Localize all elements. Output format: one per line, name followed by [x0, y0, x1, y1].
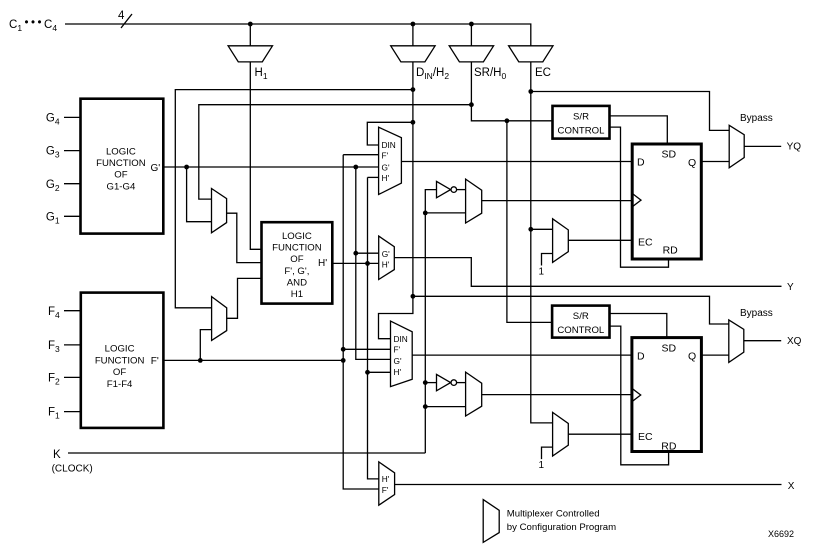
wire lower small mux output to H box [227, 278, 262, 318]
wire lower big mux output to FF D [412, 354, 632, 356]
wire SR/H0 net down and right to upper S/R control [471, 62, 552, 121]
svg-text:G': G' [382, 163, 390, 173]
svg-text:Bypass: Bypass [740, 113, 773, 124]
svg-text:Multiplexer Controlled: Multiplexer Controlled [507, 509, 600, 520]
svg-text:FUNCTION: FUNCTION [272, 243, 322, 254]
mux EC (config mux) [509, 46, 553, 62]
svg-text:F': F' [394, 345, 401, 355]
svg-text:OF: OF [114, 170, 127, 181]
wire top bus C1-C4 [65, 24, 531, 46]
node junction clock at y382.6 [423, 380, 428, 385]
svg-text:F': F' [382, 151, 389, 161]
svg-text:H': H' [382, 474, 390, 484]
node junction SR/H0 at y104.7 [469, 102, 474, 107]
node junction G' at x355.8 [353, 165, 358, 170]
svg-text:OF: OF [290, 254, 303, 265]
wire H' output from H box [332, 262, 378, 264]
mux upper clock polarity (config mux) [466, 179, 482, 223]
wire stub bus to DIN/H2 mux [412, 24, 414, 46]
wire G' tap to G'/H' mux [356, 252, 379, 254]
svg-text:RD: RD [663, 245, 679, 257]
svg-text:Y: Y [787, 282, 794, 293]
wire EC branch to upper EC select mux [531, 228, 553, 230]
bus width slash [121, 14, 132, 28]
logic function box F1-F4 [81, 293, 164, 428]
node junction on bus for H1 [248, 22, 253, 27]
svg-text:F', G',: F', G', [284, 266, 309, 277]
svg-text:X6692: X6692 [768, 529, 794, 539]
wire upper S/R to RD [610, 127, 669, 267]
node junction on bus for SR/H0 [469, 22, 474, 27]
wire G' dropper to lower big mux G' input [356, 167, 391, 359]
wire DIN/H2 branch left to lower small mux input [175, 90, 413, 308]
node junction F' at y349.3 [341, 347, 346, 352]
mux G'/H' (config mux) [379, 236, 395, 279]
wire constant 1 into upper EC mux [542, 254, 553, 266]
node junction DIN/H2 at y89.6 [411, 87, 416, 92]
mux small lower (F'/DIN select, config mux) [212, 297, 227, 341]
mux small upper (G'/SR select, config mux) [212, 189, 227, 233]
mux lower big DIN/F'/G'/H' (config mux) [391, 321, 413, 387]
wire constant 1 into lower EC mux [542, 447, 553, 459]
svg-text:Q: Q [688, 157, 696, 169]
wire EC branch to upper bypass mux [531, 92, 729, 131]
node junction clock at y212.9 [423, 211, 428, 216]
node junction F' riser [341, 358, 346, 363]
mux DIN/H2 (config mux) [391, 46, 435, 62]
svg-text:D: D [637, 157, 645, 169]
svg-text:LOGIC: LOGIC [105, 344, 135, 355]
wire DIN/H2 net vertical and into lower big mux DIN [379, 62, 413, 339]
wire clock vertical from K [425, 190, 436, 453]
logic function box F' G' H1 [262, 222, 333, 303]
node junction EC at y229.3 [528, 227, 533, 232]
svg-text:H': H' [394, 367, 402, 377]
wire H' top tap to upper big mux H' input [368, 176, 379, 178]
wire clock direct to upper clock mux [425, 212, 465, 214]
inverter upper clock [437, 181, 451, 197]
mux upper EC select (config mux) [553, 219, 569, 263]
svg-text:DIN: DIN [382, 140, 396, 150]
wire G' tap to upper small mux input [187, 167, 212, 222]
wire H1 net: mux H1 down to H box input [250, 62, 261, 249]
svg-text:K: K [53, 449, 61, 461]
mux upper bypass (config mux) [729, 125, 744, 168]
mux H'/F' (config mux) [379, 462, 395, 505]
svg-text:G1-G4: G1-G4 [107, 181, 136, 192]
wire upper S/R to SD [610, 116, 668, 144]
wire F' tap to lower big mux F' input [343, 348, 390, 350]
wire lower EC mux output to FF EC [568, 433, 632, 435]
S/R control box lower [552, 306, 609, 338]
wire SR/H0 branch left to upper small mux input [199, 105, 472, 199]
node junction H' at y372.3 [365, 370, 370, 375]
wire stub bus to SR/H0 mux [470, 24, 472, 46]
wire stub bus to H1 mux [249, 24, 251, 46]
wire X output from H'/F' mux [395, 484, 782, 486]
svg-text:EC: EC [535, 67, 551, 79]
svg-text:OF: OF [113, 367, 126, 378]
legend mux symbol (config mux) [483, 500, 499, 543]
clock triangle lower FF [632, 388, 641, 401]
svg-text:(CLOCK): (CLOCK) [52, 464, 93, 475]
node junction EC at y91.5 [528, 89, 533, 94]
svg-text:XQ: XQ [787, 336, 802, 347]
svg-text:G': G' [394, 356, 402, 366]
mux lower bypass (config mux) [729, 320, 744, 363]
mux SR/H0 (config mux) [449, 46, 493, 62]
node junction G' at x186.6 [184, 165, 189, 170]
svg-text:SD: SD [662, 149, 677, 161]
wire F' net from F box to riser [163, 359, 343, 361]
wire upper EC mux output to FF EC [568, 239, 632, 241]
node junction G' dropper at y253.2 [353, 251, 358, 256]
wire clock to lower inverter [425, 382, 436, 384]
svg-text:H': H' [382, 173, 390, 183]
svg-text:Bypass: Bypass [740, 308, 773, 319]
svg-text:LOGIC: LOGIC [106, 146, 136, 157]
wire K clock line [68, 452, 425, 454]
wire lower clock mux output to FF clock [482, 394, 632, 396]
mux lower clock polarity (config mux) [466, 372, 482, 416]
svg-text:X: X [788, 481, 795, 492]
wire upper big mux output to FF D [401, 161, 632, 163]
node junction clock at y406.6 [423, 404, 428, 409]
svg-text:EC: EC [638, 431, 653, 443]
node junction DIN/H2 at y296.3 [411, 294, 416, 299]
svg-text:4: 4 [118, 10, 125, 22]
svg-text:FUNCTION: FUNCTION [96, 158, 146, 169]
node junction F' at x200.3 [198, 358, 203, 363]
wire H' tap to lower big mux H' input [368, 371, 391, 373]
svg-text:G': G' [382, 249, 390, 259]
S/R control box upper [553, 106, 610, 139]
node junction H' vertical [365, 261, 370, 266]
node junction on bus for DIN/H2 [411, 22, 416, 27]
wire DIN branch to upper big mux DIN input [367, 122, 413, 145]
node junction SR/H0 at x506.9 [505, 118, 510, 123]
svg-text:CONTROL: CONTROL [557, 325, 605, 336]
wire DIN/H2 branch to lower bypass mux [413, 296, 729, 324]
wire upper small mux output to H box [227, 213, 262, 262]
svg-text:H': H' [318, 258, 327, 269]
svg-text:SD: SD [662, 342, 677, 354]
wire F' top tap to upper big mux F' input [343, 154, 378, 156]
svg-text:AND: AND [287, 277, 307, 288]
wire lower Q to bypass mux [701, 354, 728, 356]
clock triangle upper FF [632, 193, 641, 206]
wire XQ output [744, 340, 781, 342]
wire lower S/R to SD [610, 314, 667, 338]
svg-text:by Configuration Program: by Configuration Program [507, 522, 616, 533]
svg-text:H': H' [382, 260, 390, 270]
svg-text:LOGIC: LOGIC [282, 231, 312, 242]
wire upper Q to bypass mux [701, 161, 729, 163]
svg-text:EC: EC [638, 236, 653, 248]
wire Y output from G'/H' mux [394, 258, 781, 287]
svg-text:CONTROL: CONTROL [558, 126, 606, 137]
flip-flop upper [632, 144, 701, 259]
node junction DIN/H2 at y122.3 [411, 120, 416, 125]
svg-text:RD: RD [661, 440, 677, 452]
svg-text:S/R: S/R [573, 112, 589, 123]
wire H' vertical spine [368, 177, 379, 479]
svg-text:F': F' [382, 485, 389, 495]
wire F' to lower small mux input from F' line [200, 330, 211, 361]
wire upper clock mux output to FF clock [482, 200, 633, 202]
svg-text:D: D [637, 350, 645, 362]
svg-text:F': F' [151, 356, 159, 367]
mux H1 (config mux) [228, 46, 272, 62]
svg-text:H1: H1 [291, 289, 303, 300]
svg-text:FUNCTION: FUNCTION [95, 355, 145, 366]
inverter lower clock [437, 374, 451, 390]
wire YQ output [744, 145, 781, 147]
svg-text:1: 1 [539, 267, 545, 278]
wire EC net vertical down to lower EC select mux [531, 62, 553, 423]
svg-text:DIN: DIN [394, 334, 408, 344]
wire F' riser vertical with taps [343, 155, 379, 489]
svg-text:S/R: S/R [573, 311, 589, 322]
logic function box G1-G4 [81, 99, 164, 234]
mux upper big DIN/F'/G'/H' (config mux) [379, 127, 402, 194]
wire SR/H0 dropper to lower S/R control [507, 121, 552, 323]
svg-text:YQ: YQ [787, 142, 802, 153]
wire lower S/R to RD [610, 326, 669, 465]
svg-text:F1-F4: F1-F4 [107, 379, 133, 390]
mux lower EC select (config mux) [553, 412, 569, 456]
wire G' net from G box to upper big mux [163, 166, 378, 168]
svg-text:•••: ••• [25, 17, 45, 29]
wire clock direct to lower clock mux [425, 406, 465, 408]
svg-text:1: 1 [539, 460, 545, 471]
flip-flop lower [632, 338, 702, 452]
svg-text:G': G' [151, 163, 161, 174]
svg-text:Q: Q [688, 351, 696, 363]
